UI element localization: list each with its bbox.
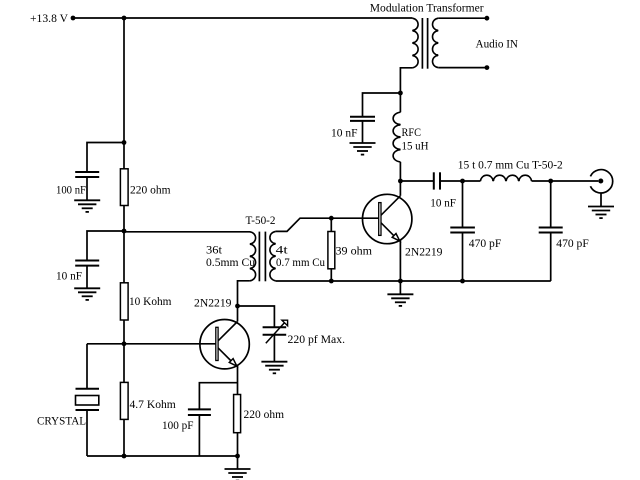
ground under C4 [350,142,376,144]
wire Q2 emitter down [399,240,401,281]
svg-text:2N2219: 2N2219 [194,298,232,310]
capacitor C3 100 pF [188,408,211,410]
ground under connector [588,206,614,208]
wire T2 primary bottom to RFC node [400,68,412,93]
junction rail at Q2 emitter [398,279,403,284]
wire left column vertical (supply to R1) [123,18,125,170]
capacitor C5 10 nF series plates [433,172,435,189]
wire connector to ground [600,193,602,207]
wire 10nF to ground [362,121,364,143]
junction rail at 39 ohm [329,279,334,284]
variable capacitor 220 pf plates [263,326,287,328]
wire T1 secondary top to Q2 base [276,218,379,231]
ground under bottom rail [225,468,251,470]
wire bias node to T-50-2 primary top [124,231,250,233]
wire 39ohm top [330,218,332,231]
wire base rail down to crystal [86,344,88,389]
crystal X1 bottom plate [76,409,100,411]
svg-text:470 pF: 470 pF [556,238,589,250]
svg-text:220 pf Max.: 220 pf Max. [288,334,346,346]
svg-text:100 pF: 100 pF [162,420,194,432]
svg-text:10 nF: 10 nF [331,127,358,139]
wire to 100 nF decoupling cap [87,143,124,173]
node +13.8 V supply terminal [71,16,76,21]
wire 39ohm bottom [330,269,332,281]
ground under Q2 emitter rail [387,293,413,295]
wire 100 pF to bottom rail [198,415,200,456]
ground under 10 nF [74,287,100,289]
inductor L1 output coil [480,175,531,181]
wire Q1 emitter down [237,365,239,395]
transformer T2 core lines [421,18,423,69]
svg-text:+13.8 V: +13.8 V [30,13,69,25]
capacitor C6 470 pF [450,227,475,229]
wire node B down to 470 pF [550,181,552,228]
wire C6 to rail [462,233,464,282]
crystal X1 body [76,396,99,406]
svg-text:Modulation Transformer: Modulation Transformer [370,3,484,15]
resistor R4 220 ohm [234,395,241,433]
variable capacitor arrowhead [282,320,288,326]
capacitor C1 100 nF [75,171,99,173]
svg-text:100 nF: 100 nF [56,184,86,196]
junction output node A [460,179,465,184]
ground under trimmer [261,361,287,363]
wire T2 secondary bottom lead [438,67,487,69]
svg-text:0.7 mm Cu: 0.7 mm Cu [276,257,325,269]
transistor Q2 emitter arrowhead [392,234,400,242]
svg-text:2N2219: 2N2219 [405,247,443,259]
ground under 100 nF [74,199,100,201]
svg-text:Audio IN: Audio IN [476,39,519,51]
capacitor C7 470 pF [539,227,563,229]
transistor Q1 collector line [218,322,237,341]
svg-text:4.7 Kohm: 4.7 Kohm [130,399,176,411]
wire Q1 collector up [237,306,239,322]
svg-text:15 uH: 15 uH [402,140,429,152]
transformer T1 secondary winding 4t [270,231,276,280]
wire R1 to bias node [123,206,125,284]
capacitor C2 10 nF [75,260,99,262]
wire crystal to bottom rail [86,410,88,456]
svg-text:39 ohm: 39 ohm [336,246,373,258]
junction RFC top node [398,91,403,96]
junction rail at C6 [460,279,465,284]
transistor Q2 circle [363,194,412,243]
wire T1 primary bottom to Q1 collector node [238,281,250,306]
inductor RFC 15 uH [393,112,400,162]
junction base node Q1 [122,341,127,346]
wire R4 to bottom rail [237,433,239,456]
wire R3 to bottom rail [123,419,125,456]
wire collector node to series cap [400,180,433,182]
wire 10nF to ground [86,266,88,289]
wire L1 to antenna connector [532,180,599,182]
wire RFC to collector node [399,162,401,181]
wire 100nF to ground [86,177,88,200]
resistor R1 220 ohm [120,169,128,206]
wire trimmer to ground [273,335,275,362]
transistor Q2 base bar [379,203,381,236]
svg-text:220 ohm: 220 ohm [244,409,285,421]
wire bias node to 10 nF cap [87,231,124,261]
wire RFC node to 10 nF [363,93,401,117]
svg-text:CRYSTAL: CRYSTAL [37,415,86,427]
svg-text:RFC: RFC [402,127,422,139]
wire RFC node down [399,93,401,112]
junction output node B [548,179,553,184]
wire T2 secondary top lead [438,17,487,19]
svg-text:470 pF: 470 pF [469,238,502,250]
transistor Q1 emitter arrowhead [229,359,237,367]
transformer T2 primary winding [412,18,418,68]
antenna connector center pin [598,179,603,184]
transistor Q1 circle [200,320,249,369]
crystal X1 top plate [76,388,100,390]
wire emitter ground rail [276,280,551,282]
wire node A down to 470 pF [462,181,464,228]
transformer T2 secondary winding [433,18,439,67]
transformer T1 core lines [258,232,260,282]
junction bottom rail at Q1 emitter [235,454,240,459]
junction collector node Q2 [398,179,403,184]
svg-text:10 nF: 10 nF [430,197,456,209]
junction 39 ohm top node [329,216,334,221]
wire Q2 collector up [399,181,401,196]
transistor Q2 collector line [381,196,400,215]
svg-text:0.5mm Cu: 0.5mm Cu [206,257,255,269]
wire collector node to trimmer cap [238,306,275,327]
node audio terminal bottom [485,65,490,70]
transistor Q1 base bar [216,327,218,360]
junction Q1 collector node [235,304,240,309]
svg-text:36t: 36t [206,245,223,257]
node audio terminal top [485,16,490,21]
wire C7 to rail corner [550,233,552,282]
svg-text:10 nF: 10 nF [56,271,82,283]
resistor R3 4.7 Kohm [120,382,128,419]
capacitor C4 10 nF [350,116,375,118]
svg-text:15 t 0.7 mm Cu T-50-2: 15 t 0.7 mm Cu T-50-2 [458,159,563,171]
junction bottom rail / left column [122,454,127,459]
junction bias node (y=231) [122,229,127,234]
svg-text:4t: 4t [276,244,289,256]
wire bottom rail to ground [237,456,239,469]
transistor Q1 emitter line [218,348,233,363]
svg-text:220 ohm: 220 ohm [130,184,171,196]
junction top rail / left column [122,16,127,21]
wire Q2 rail to ground [399,281,401,294]
variable capacitor arrow line [266,323,285,343]
antenna connector ring [590,170,612,193]
junction node at 100nF tap [122,140,127,145]
wire bottom ground rail [87,455,238,457]
wire base rail to Q1 [87,343,216,345]
wire R2 to base node [123,320,125,382]
wire top supply rail [73,17,412,19]
svg-text:10 Kohm: 10 Kohm [129,296,172,308]
svg-text:T-50-2: T-50-2 [246,215,276,227]
transistor Q2 emitter line [381,223,396,238]
transformer T1 primary winding 36t [250,232,256,281]
wire series cap to L1 [440,180,480,182]
resistor R5 39 ohm [328,232,335,269]
wire emitter tee to 100 pF [199,383,237,410]
resistor R2 10 Kohm [120,283,128,320]
